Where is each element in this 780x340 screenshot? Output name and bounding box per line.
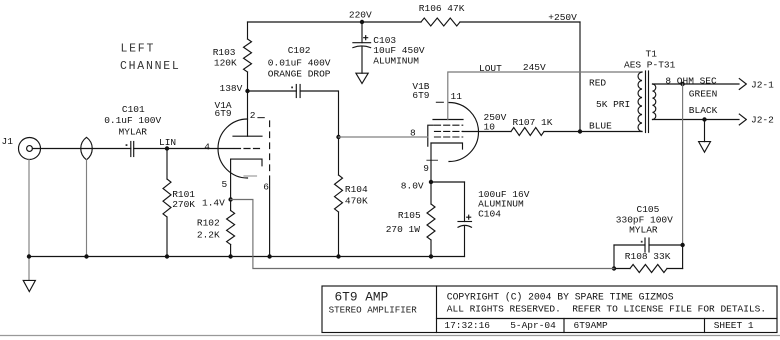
svg-text:6T9: 6T9 xyxy=(215,108,232,119)
svg-text:C102: C102 xyxy=(288,45,311,56)
resistor R107 xyxy=(511,128,544,136)
V1B screen grid g2 (dashed) xyxy=(435,124,463,126)
svg-text:SHEET 1: SHEET 1 xyxy=(714,320,754,331)
svg-text:8 OHM SEC: 8 OHM SEC xyxy=(665,75,717,86)
wire J1 ground lead xyxy=(28,160,30,257)
svg-text:11: 11 xyxy=(451,91,463,102)
svg-text:0.01uF 400V: 0.01uF 400V xyxy=(268,58,331,69)
wire V1B plate lead pin 11 / LOUT xyxy=(448,72,642,120)
capacitor C104 xyxy=(464,182,466,222)
wire 220V rail xyxy=(248,21,422,23)
svg-text:1.4V: 1.4V xyxy=(202,198,225,209)
capacitor C102 xyxy=(295,85,297,98)
connector J2-1 arrow xyxy=(739,79,746,90)
wire J1 to C101 xyxy=(32,148,130,150)
node 220V tap xyxy=(360,20,364,24)
node J2-2 ground tap xyxy=(702,117,706,121)
svg-text:8: 8 xyxy=(410,128,416,139)
svg-text:C101: C101 xyxy=(122,104,145,115)
wire R106 to +250V corner xyxy=(460,21,580,23)
capacitor C105 xyxy=(614,244,645,246)
node 8 ohm tap xyxy=(680,82,684,86)
node C105/R108 right xyxy=(680,243,684,247)
svg-text:4: 4 xyxy=(204,142,210,153)
wire secondary bottom to J2-2 xyxy=(653,119,740,121)
svg-text:6T9 AMP: 6T9 AMP xyxy=(335,290,389,305)
svg-text:BLACK: BLACK xyxy=(689,105,718,116)
wire C105/R108 left vertical xyxy=(613,245,615,269)
title block frame xyxy=(322,286,777,333)
svg-text:LOUT: LOUT xyxy=(479,63,502,74)
ferrite bead FB1 xyxy=(81,137,92,160)
svg-text:RED: RED xyxy=(589,77,606,88)
resistor R104 xyxy=(338,137,340,175)
tube V1A 6T9 triode envelope xyxy=(218,119,248,178)
wire C103 to ground xyxy=(361,47,363,74)
svg-text:5: 5 xyxy=(222,179,228,190)
svg-text:ALUMINUM: ALUMINUM xyxy=(373,56,419,67)
V1A plate xyxy=(233,135,262,137)
svg-text:2: 2 xyxy=(250,110,256,121)
wire V1A cathode lead pin 5 xyxy=(230,159,232,199)
svg-text:17:32:16: 17:32:16 xyxy=(444,320,490,331)
ground (J1) xyxy=(28,257,30,281)
svg-text:R104: R104 xyxy=(345,184,368,195)
svg-text:6T9AMP: 6T9AMP xyxy=(574,320,609,331)
svg-text:138V: 138V xyxy=(220,83,243,94)
transformer T1 secondary winding xyxy=(653,84,656,120)
svg-text:R108 33K: R108 33K xyxy=(625,251,671,262)
ground (C103) xyxy=(356,73,368,83)
svg-text:J2-2: J2-2 xyxy=(751,115,774,126)
resistor R101 xyxy=(166,149,168,180)
svg-text:120K: 120K xyxy=(214,57,237,68)
sheet bottom border xyxy=(0,335,780,337)
connector J1 xyxy=(19,138,41,160)
V1B grid row g3 (dashed) xyxy=(435,130,463,132)
wire V1A pin 6 shield to ground xyxy=(269,176,271,257)
svg-text:LEFT: LEFT xyxy=(121,42,156,55)
svg-text:0.1uF 100V: 0.1uF 100V xyxy=(104,115,161,126)
wire V1A plate lead pin 2 xyxy=(247,91,249,136)
node V1B grid xyxy=(336,135,340,139)
svg-text:R106 47K: R106 47K xyxy=(419,3,465,14)
connector J2-2 arrow xyxy=(739,114,746,125)
node 8.0V cathode junction xyxy=(429,180,433,184)
svg-text:2.2K: 2.2K xyxy=(197,230,220,241)
wire ground bus xyxy=(29,256,465,258)
svg-text:6T9: 6T9 xyxy=(412,90,429,101)
wire J2-2 tap to ground xyxy=(704,120,706,142)
resistor R103 xyxy=(247,22,249,39)
svg-text:J1: J1 xyxy=(2,136,14,147)
node 138V xyxy=(245,89,249,93)
wire feedback from 8 ohm tap down xyxy=(682,84,684,245)
V1B plate xyxy=(433,119,463,121)
V1A cathode xyxy=(231,159,262,166)
svg-text:CHANNEL: CHANNEL xyxy=(120,60,181,73)
wire bead ground lead xyxy=(86,160,88,257)
svg-text:R105: R105 xyxy=(398,210,421,221)
wire feedback to cathode 1.4V node xyxy=(231,200,614,269)
svg-text:STEREO AMPLIFIER: STEREO AMPLIFIER xyxy=(329,304,418,315)
wire secondary top to J2-1 xyxy=(653,83,740,85)
V1A grid (dashed) xyxy=(235,148,263,150)
junction dots on ground bus xyxy=(27,254,31,258)
svg-text:R107 1K: R107 1K xyxy=(513,117,553,128)
transformer T1 primary winding xyxy=(638,72,642,132)
tube V1B 6T9 pentode envelope xyxy=(449,103,479,162)
svg-text:+250V: +250V xyxy=(548,12,577,23)
svg-text:8.0V: 8.0V xyxy=(401,181,424,192)
svg-text:BLUE: BLUE xyxy=(589,121,612,132)
svg-text:220V: 220V xyxy=(349,9,372,20)
wire 138V node to C102 xyxy=(248,90,297,92)
resistor R108 xyxy=(614,268,630,270)
wire pin 8 from grid node xyxy=(339,136,428,138)
svg-text:J2-1: J2-1 xyxy=(751,80,774,91)
resistor R105 xyxy=(430,182,432,204)
svg-text:GREEN: GREEN xyxy=(689,88,718,99)
svg-text:470K: 470K xyxy=(345,196,368,207)
svg-text:5K PRI: 5K PRI xyxy=(596,99,630,110)
svg-text:9: 9 xyxy=(423,163,429,174)
svg-text:ORANGE DROP: ORANGE DROP xyxy=(268,69,331,80)
transformer T1 core xyxy=(645,71,647,133)
wire 8.0V node to C104 xyxy=(431,181,465,183)
wire C101 to grid pin 4 xyxy=(134,148,234,150)
svg-text:LIN: LIN xyxy=(159,137,176,148)
ground (secondary) xyxy=(699,142,711,153)
svg-text:AES P-T31: AES P-T31 xyxy=(624,60,676,71)
svg-text:COPYRIGHT (C) 2004 BY SPARE TI: COPYRIGHT (C) 2004 BY SPARE TIME GIZMOS xyxy=(447,292,674,303)
V1B cathode xyxy=(431,143,463,149)
resistor R106 xyxy=(421,18,460,26)
V1B grid bracket pin 8 xyxy=(428,125,434,146)
svg-text:R102: R102 xyxy=(197,217,220,228)
node +250V / screen / primary junction xyxy=(578,129,582,133)
wire +250V rail down xyxy=(579,22,581,132)
svg-text:270 1W: 270 1W xyxy=(386,224,421,235)
svg-text:5-Apr-04: 5-Apr-04 xyxy=(510,320,556,331)
svg-text:MYLAR: MYLAR xyxy=(629,225,658,236)
svg-text:T1: T1 xyxy=(646,49,658,60)
capacitor C101 xyxy=(130,142,132,157)
wire V1B pin 10 screen to R107 xyxy=(463,131,511,133)
resistor R102 xyxy=(230,200,232,211)
svg-text:ALL RIGHTS RESERVED. REFER TO: ALL RIGHTS RESERVED. REFER TO LICENSE FI… xyxy=(447,303,766,314)
svg-text:MYLAR: MYLAR xyxy=(119,126,148,137)
svg-text:245V: 245V xyxy=(523,62,546,73)
node R108 left xyxy=(612,266,616,270)
wire V1B cathode lead pin 9 xyxy=(430,143,432,182)
capacitor C103 xyxy=(361,22,363,43)
V1B control grid g1 (dashed) xyxy=(435,136,463,138)
node LIN xyxy=(165,146,169,150)
wire C105/R108 right vertical xyxy=(682,245,684,269)
wire R107 to transformer BLUE xyxy=(544,131,642,133)
svg-text:C104: C104 xyxy=(478,209,501,220)
svg-text:6: 6 xyxy=(263,181,269,192)
node 1.4V cathode junction xyxy=(228,197,232,201)
svg-text:250V: 250V xyxy=(484,112,507,123)
wire C102 to V1B grid node xyxy=(300,91,338,137)
svg-text:270K: 270K xyxy=(172,199,195,210)
